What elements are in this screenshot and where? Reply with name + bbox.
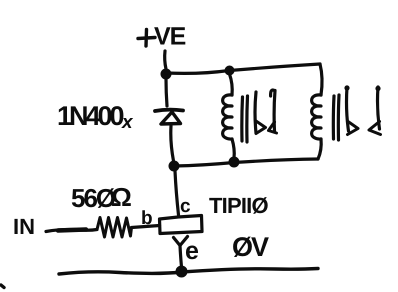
relay L2 contact 1 top blob	[344, 85, 349, 90]
relay coil L1 stub from node B	[230, 74, 233, 95]
wire bottom relay rail C to E	[174, 163, 234, 167]
relay L1 contact 1 line	[255, 92, 256, 133]
wire top rail B to right corner	[230, 64, 321, 71]
node C junction dot	[169, 161, 180, 172]
relay L2 contact 1 line	[347, 87, 349, 131]
wire bottom relay rail E to right corner	[234, 159, 318, 163]
transistor Q1 emitter arrow barbs	[174, 237, 188, 246]
relay L1 contact 1 triangle	[256, 121, 266, 134]
relay L1 contact 2 line	[273, 91, 277, 132]
svg-text:ØV: ØV	[232, 232, 269, 262]
wire collector from node C	[175, 171, 179, 215]
relay L2 core bar 1	[332, 96, 336, 139]
speck bottom left	[1, 285, 4, 288]
relay L2 contact 1 triangle	[348, 122, 359, 135]
svg-text:TIPIIØ: TIPIIØ	[209, 193, 268, 218]
wire top rail A to B	[166, 71, 229, 74]
relay L2 contact 2 triangle	[369, 122, 381, 135]
svg-text:IN: IN	[13, 214, 35, 239]
diode D1 wire to node C	[171, 126, 174, 161]
wire IN lead	[46, 229, 97, 231]
wire +VE stub	[165, 51, 166, 69]
relay L2 contact 2 top blob	[375, 86, 380, 91]
relay L1 core bar 1	[240, 97, 244, 141]
wire resistor to base	[132, 226, 160, 228]
relay L2 contact 2 line	[378, 87, 380, 129]
node D junction dot	[176, 266, 188, 278]
diode D1 wire from node A down	[166, 79, 167, 106]
wire 0V rail	[59, 269, 318, 275]
resistor R1 zigzag	[97, 218, 132, 238]
wire right corner drop	[320, 64, 322, 95]
node E junction dot	[229, 157, 240, 168]
relay L1 contact 2 triangle	[269, 122, 277, 133]
node B junction dot	[225, 66, 235, 76]
transistor Q1 TIP110 body rectangle	[160, 216, 203, 234]
wire IN lead thick part	[58, 230, 86, 231]
svg-text:b: b	[141, 208, 153, 229]
diode D1 1N400x cathode bar	[155, 110, 183, 111]
svg-text:e: e	[185, 237, 199, 265]
label 560 ohm	[71, 182, 132, 213]
svg-text:56Ø: 56Ø	[71, 183, 116, 213]
relay L1 core bar 2	[245, 96, 249, 142]
relay coil L1 loops	[223, 95, 232, 139]
relay coil L2 bottom stub	[318, 139, 321, 159]
node A junction dot	[161, 69, 172, 80]
node +VE label	[138, 23, 186, 51]
svg-text:c: c	[180, 196, 191, 217]
label 1N400x	[57, 101, 134, 133]
relay L1 contact 2 hook	[271, 90, 275, 96]
relay coil L1 bottom stub	[232, 139, 234, 158]
svg-text:1N400: 1N400	[57, 101, 124, 131]
svg-text:x: x	[121, 112, 134, 133]
svg-text:Ω: Ω	[111, 182, 132, 212]
diode D1 triangle	[161, 112, 181, 124]
relay coil L2 loops	[312, 95, 321, 139]
svg-text:VE: VE	[154, 23, 186, 51]
relay L2 core bar 2	[337, 95, 341, 140]
transistor Q1 emitter stem	[180, 246, 182, 268]
